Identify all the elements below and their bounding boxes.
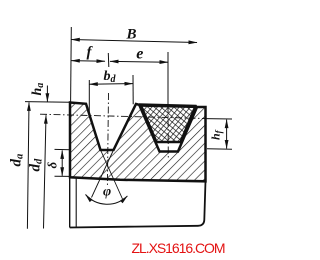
- svg-text:ZL.XS1616.COM: ZL.XS1616.COM: [132, 240, 225, 256]
- svg-text:φ: φ: [103, 184, 111, 199]
- svg-text:e: e: [136, 46, 143, 63]
- svg-text:B: B: [126, 27, 137, 43]
- svg-text:δ: δ: [45, 162, 60, 169]
